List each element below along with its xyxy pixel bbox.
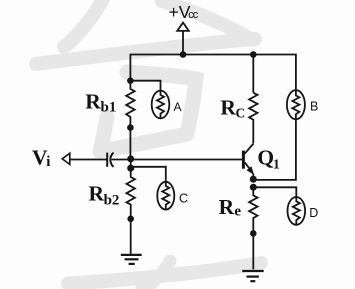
resistor Re bbox=[249, 187, 257, 233]
node base lower bbox=[127, 165, 134, 172]
Vcc arrow head bbox=[177, 23, 189, 31]
svg-text:cc: cc bbox=[188, 9, 199, 21]
svg-text:A: A bbox=[174, 100, 182, 114]
emitter arrow bbox=[247, 166, 255, 175]
wire top rail bbox=[130, 55, 296, 90]
svg-text:R: R bbox=[220, 95, 236, 119]
svg-text:R: R bbox=[89, 182, 105, 206]
svg-text:b2: b2 bbox=[104, 192, 120, 208]
wire Rb2 to ground bbox=[130, 219, 132, 254]
resistor Rb1 bbox=[126, 81, 134, 128]
wire RC branch top bbox=[252, 55, 254, 93]
svg-text:R: R bbox=[219, 195, 235, 219]
wire A branch bbox=[130, 81, 160, 91]
node base upper bbox=[127, 155, 134, 162]
svg-text:1: 1 bbox=[273, 157, 280, 172]
resistor RC bbox=[249, 93, 257, 143]
svg-text:D: D bbox=[309, 206, 318, 220]
node RC top bbox=[250, 51, 257, 58]
wire Vcc stem bbox=[182, 31, 184, 54]
wire C branch bbox=[131, 167, 166, 182]
svg-text:R: R bbox=[85, 89, 101, 113]
node Vcc junction bbox=[180, 51, 187, 58]
svg-text:i: i bbox=[46, 154, 50, 170]
wire B branch bottom bbox=[253, 120, 296, 180]
capacitor plate left bbox=[106, 153, 108, 167]
node Re bottom bbox=[250, 230, 257, 237]
lamp D bbox=[288, 197, 306, 225]
svg-text:B: B bbox=[310, 99, 318, 113]
lamp A bbox=[152, 91, 170, 119]
node Rb1 bottom bbox=[127, 124, 134, 131]
wire D branch bbox=[253, 187, 296, 197]
svg-text:C: C bbox=[179, 191, 188, 205]
svg-text:Q: Q bbox=[257, 145, 274, 169]
lamp C bbox=[157, 182, 174, 210]
ground (Re) bbox=[242, 271, 264, 281]
lamp B bbox=[287, 90, 305, 119]
node emitter upper bbox=[250, 176, 257, 183]
input arrow head bbox=[62, 153, 70, 164]
watermark background strokes bbox=[36, 0, 261, 288]
wire Re to ground bbox=[252, 233, 254, 269]
wire input bbox=[70, 159, 107, 161]
node Rb2 bottom bbox=[127, 216, 134, 223]
ground (Rb2) bbox=[121, 255, 142, 264]
node emitter lower bbox=[250, 184, 257, 191]
wire Rb1 to base node bbox=[129, 128, 131, 160]
capacitor plate right curved bbox=[110, 153, 113, 167]
svg-text:e: e bbox=[234, 203, 241, 219]
wire base node down bbox=[130, 160, 132, 173]
svg-text:b1: b1 bbox=[101, 100, 117, 116]
node Rb1 top bbox=[127, 77, 134, 84]
resistor Rb2 bbox=[127, 168, 135, 219]
svg-text:C: C bbox=[236, 106, 246, 121]
transistor Q1 bbox=[242, 151, 245, 169]
wire base bbox=[112, 159, 243, 161]
